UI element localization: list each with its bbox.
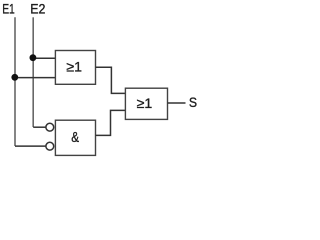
wire E2 vertical rail [32,17,34,127]
inverter bubble on AND bottom input [46,142,54,150]
svg-text:S: S [189,94,197,110]
wire E1 vertical rail [14,17,16,146]
wire E2 tap to OR1 top input [33,57,55,59]
input label E1 [2,1,15,17]
wire OR1 output to OR2 top input [96,67,126,93]
junction dot on E2 rail [30,54,37,61]
svg-text:≥1: ≥1 [137,95,153,111]
wire E1 rail elbow to AND bottom input [15,145,46,147]
OR gate U1 box [55,51,95,85]
svg-text:E2: E2 [30,1,45,17]
wire E1 tap to OR1 bottom input [15,77,55,79]
output label S [189,94,197,110]
svg-text:E1: E1 [2,1,15,17]
OR gate U3 box [125,88,167,119]
inverter bubble on AND top input [46,123,54,131]
input label E2 [30,1,45,17]
wire OR2 output to S [168,102,186,104]
AND gate U2 box [55,120,95,155]
svg-text:≥1: ≥1 [66,59,82,75]
wire AND output to OR2 bottom input [96,110,126,135]
OR gate U1 label ">=1" [66,59,82,75]
junction dot on E1 rail [11,74,18,81]
svg-text:&: & [71,129,79,146]
OR gate U3 label ">=1" [137,95,153,111]
AND gate U2 label "&" [71,129,79,146]
wire E2 rail elbow to AND top input [33,126,46,128]
